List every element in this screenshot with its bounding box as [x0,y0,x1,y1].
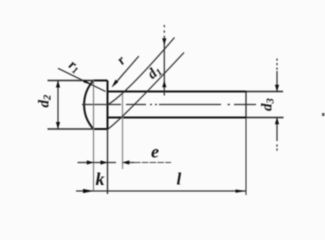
e dimension line with arrow [123,162,135,164]
svg-text:e: e [151,142,159,162]
r1 leader line [58,68,106,91]
d1 oblique extension line lower [108,53,184,130]
speck artifact near right edge [322,113,325,116]
svg-text:d1: d1 [144,62,165,83]
d3 dimension line upper with dots [276,59,278,151]
d2 arrow up [56,81,60,88]
shank bottom edge [108,117,247,119]
l dimension line [76,190,246,192]
rivet head dome arc [84,81,93,130]
rivet head flat face [107,81,109,130]
k / l extension line (head face) [107,129,109,194]
l right arrow [236,190,247,193]
d1 arrow up [162,81,166,88]
svg-text:r1: r1 [65,58,82,77]
k extension line (head tangent) [93,81,95,192]
d1 oblique extension line upper [108,38,175,105]
svg-text:l: l [177,170,182,189]
d3 arrow down [275,85,279,92]
e extension line [122,93,124,170]
svg-text:r: r [115,53,130,68]
r leader arrowhead [112,80,119,88]
r leader line [114,56,139,85]
d2 arrow down [56,122,60,129]
d1 arrow down [162,38,166,45]
rivet head outline: bottom edge with d2 extension [48,128,94,130]
d3 arrow up [275,118,279,125]
shank top edge [108,91,247,93]
d1 dimension line vertical with dotted tail [163,25,165,96]
svg-text:d3: d3 [260,98,277,111]
rivet head outline: top edge with d2 extension [48,80,94,82]
svg-text:d2: d2 [37,94,54,108]
l left arrow [83,189,94,193]
svg-text:k: k [96,169,105,189]
l end extension [245,118,247,196]
r1 leader arrowhead [83,80,92,85]
d3 top extension [246,91,283,93]
shank end face [245,92,247,118]
d2 dimension line [57,81,59,130]
d3 bottom extension [246,117,284,119]
k dimension line and arrows [78,162,94,164]
centerline (dash-dot axis) [82,104,256,106]
